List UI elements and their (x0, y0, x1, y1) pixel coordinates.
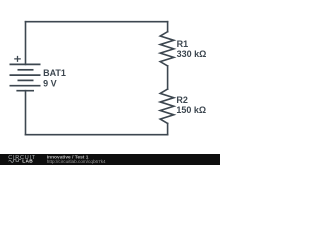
svg-text:LAB: LAB (22, 159, 33, 165)
wire right lower (167, 123, 169, 134)
battery BAT1 (10, 56, 41, 91)
plate terminal (16, 90, 34, 92)
svg-text:R1: R1 (177, 39, 189, 49)
plate long 2 (10, 74, 41, 76)
svg-text:330 kΩ: 330 kΩ (177, 49, 207, 59)
wire right middle (167, 66, 169, 89)
svg-text:150 kΩ: 150 kΩ (176, 105, 206, 115)
resistor R2 (160, 89, 174, 123)
wire left upper (25, 22, 27, 65)
wire right upper (167, 22, 169, 32)
wire bottom (26, 134, 168, 136)
svg-text:http://circuitlab.com/cqb67k4: http://circuitlab.com/cqb67k4 (47, 159, 106, 164)
plus sign (14, 56, 21, 62)
plate long 1 (10, 63, 41, 65)
plate short 1 (18, 69, 34, 71)
plate short 2 (18, 79, 34, 81)
resistor R1 (160, 32, 174, 66)
plate long 3 (10, 85, 41, 87)
wire top (26, 21, 168, 23)
footer banner (0, 154, 220, 165)
svg-text:R2: R2 (176, 95, 188, 105)
svg-text:9 V: 9 V (43, 79, 57, 89)
svg-text:BAT1: BAT1 (43, 68, 66, 78)
wire left lower (25, 91, 27, 135)
logo waveform (9, 160, 21, 163)
